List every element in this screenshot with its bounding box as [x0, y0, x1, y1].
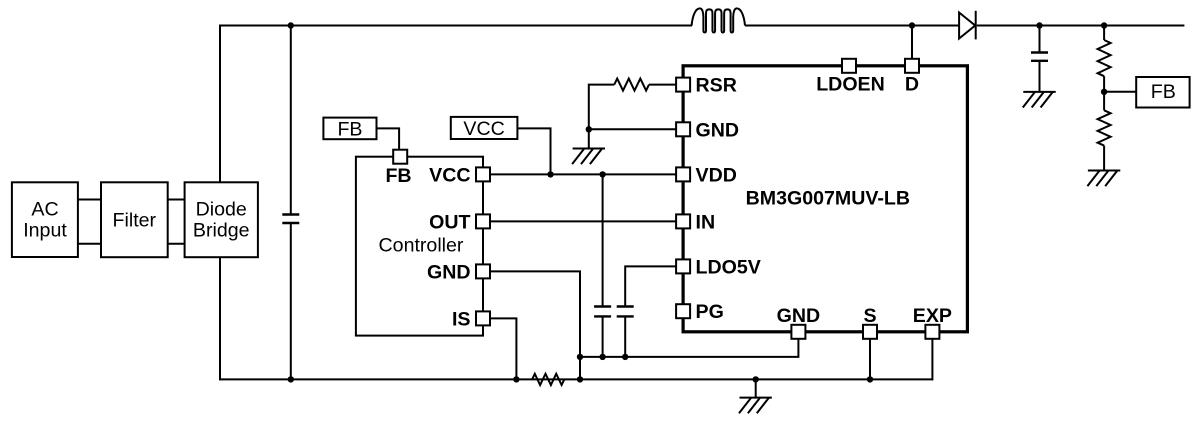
net label box FB (controller) — [323, 118, 376, 141]
label: BM3G007MUV-LB — [746, 187, 910, 209]
svg-text:Filter: Filter — [113, 210, 157, 232]
pin label PG — [696, 301, 724, 323]
pin label VCC — [429, 164, 470, 186]
ground G1 — [572, 149, 605, 165]
wire: R3 top lead — [1103, 26, 1105, 41]
box: Filter — [101, 182, 168, 257]
pin label RSR — [696, 75, 737, 97]
wire: C2 top lead — [602, 174, 604, 306]
junction: D at top rail — [909, 22, 915, 28]
capacitor C1 — [282, 215, 299, 224]
svg-text:EXP: EXP — [913, 305, 952, 327]
svg-text:GND: GND — [696, 119, 740, 141]
wire: inner ground line — [580, 332, 798, 357]
svg-text:Bridge: Bridge — [193, 219, 250, 241]
svg-text:Diode: Diode — [196, 199, 247, 221]
pin: controller OUT — [476, 214, 490, 228]
svg-text:S: S — [863, 305, 876, 327]
svg-text:LDO5V: LDO5V — [696, 256, 761, 278]
capacitor C2 — [594, 307, 611, 317]
resistor R2 (current sense) — [532, 374, 564, 385]
box: Diode Bridge — [185, 182, 258, 257]
wire: C3 bottom lead — [624, 316, 626, 357]
capacitor C3 — [617, 307, 634, 317]
svg-text:BM3G007MUV-LB: BM3G007MUV-LB — [746, 187, 910, 209]
wire: stub to ground G2 — [755, 379, 757, 397]
junction: C3 at ground line — [622, 354, 628, 360]
pin: U2 GND (bottom) — [791, 325, 805, 339]
wire: top rail right segment — [977, 25, 1185, 27]
svg-text:VDD: VDD — [696, 164, 737, 186]
resistor R1 (RSR) — [614, 79, 649, 91]
wire: bottom rail — [219, 378, 932, 380]
wire: R1 to GND pin corner — [589, 85, 615, 130]
pin label VDD — [696, 164, 737, 186]
diode D1 — [959, 11, 976, 40]
wire: R4 to ground — [1103, 146, 1105, 171]
junction: VCC label tap — [547, 171, 553, 177]
pin: U2 D — [905, 59, 919, 73]
svg-text:PG: PG — [696, 301, 724, 323]
junction: FB divider node — [1101, 89, 1107, 95]
ground G2 — [739, 398, 772, 414]
wire AC Input to Filter (upper) — [78, 199, 101, 201]
controller U1 box — [356, 157, 483, 336]
pin: U2 LDOEN — [842, 59, 856, 73]
box: AC Input — [12, 182, 78, 257]
ground G4 — [1087, 171, 1120, 187]
wire: VCC pin to VDD pin — [483, 173, 683, 175]
wire: RSR pin lead — [649, 84, 683, 86]
pin: U2 LDO5V — [676, 259, 690, 273]
junction: C1 at top rail — [288, 22, 294, 28]
svg-text:LDOEN: LDOEN — [816, 73, 885, 95]
pin: controller IS — [476, 311, 490, 325]
wire Filter to Diode Bridge (lower) — [168, 243, 185, 245]
pin label LDOEN — [816, 73, 885, 95]
wire: R3 to node FB — [1103, 76, 1105, 110]
wire: C1 top lead — [290, 26, 292, 215]
wire: C4 to ground — [1039, 61, 1041, 92]
pin: controller GND — [476, 264, 490, 278]
svg-text:Input: Input — [23, 219, 67, 241]
junction: bottom rail at R2 — [577, 376, 583, 382]
svg-text:RSR: RSR — [696, 75, 737, 97]
net label box FB (output) — [1136, 77, 1189, 108]
wire: S pin to bottom rail — [869, 332, 871, 380]
wire: D pin to top rail — [911, 26, 913, 66]
wire AC Input to Filter (lower) — [78, 243, 101, 245]
pin: U2 GND (left) — [676, 122, 690, 136]
wire: VCC label to VCC net — [517, 128, 550, 174]
junction: ground line left — [577, 354, 583, 360]
svg-text:OUT: OUT — [429, 211, 470, 233]
svg-text:GND: GND — [777, 305, 821, 327]
pin: controller FB — [393, 150, 407, 164]
junction: C2 tap on VCC net — [599, 171, 605, 177]
wire: to GND pin — [589, 128, 683, 130]
pin: U2 IN — [676, 214, 690, 228]
junction: divider at top rail — [1101, 22, 1107, 28]
wire: LDO5V to C3 — [625, 266, 683, 306]
svg-text:VCC: VCC — [429, 164, 470, 186]
pin: controller VCC — [476, 167, 490, 181]
ground G3 — [1023, 92, 1056, 108]
pin label D — [905, 73, 919, 95]
wire: C4 top lead — [1039, 26, 1041, 53]
wire: IS pin to bottom rail — [483, 318, 516, 379]
wire: EXP pin to bottom rail — [931, 332, 933, 381]
wire: Diode Bridge bottom to bottom rail — [219, 257, 221, 380]
svg-text:FB: FB — [1151, 81, 1176, 103]
wire: top rail left segment — [219, 25, 692, 27]
pin label FB — [385, 165, 411, 187]
svg-text:IS: IS — [452, 308, 471, 330]
wire: OUT pin to IN pin — [483, 220, 683, 222]
svg-text:GND: GND — [427, 261, 471, 283]
pin: U2 RSR — [676, 78, 690, 92]
wire Filter to Diode Bridge (upper) — [168, 199, 185, 201]
pin label LDO5V — [696, 256, 761, 278]
svg-text:FB: FB — [385, 165, 411, 187]
junction: G2 at bottom rail — [753, 376, 759, 382]
junction: C2 at ground line — [599, 354, 605, 360]
svg-text:Controller: Controller — [379, 235, 464, 257]
junction: S at bottom rail — [867, 376, 873, 382]
resistor R3 — [1098, 40, 1111, 76]
pin label S — [863, 305, 876, 327]
pin label IN — [696, 211, 716, 233]
svg-text:D: D — [905, 73, 919, 95]
pin label EXP — [913, 305, 952, 327]
wire: Diode Bridge top to top rail — [219, 25, 221, 183]
pin: U2 S — [863, 325, 877, 339]
svg-text:IN: IN — [696, 211, 716, 233]
net label box VCC — [451, 117, 518, 140]
capacitor C4 — [1031, 53, 1048, 61]
pin: U2 EXP — [925, 325, 939, 339]
pin label OUT — [429, 211, 470, 233]
IC U2 BM3G007MUV-LB box — [683, 66, 967, 332]
junction: RSR ground node — [586, 126, 592, 132]
svg-text:VCC: VCC — [463, 118, 504, 140]
wire: node to FB label box — [1104, 91, 1136, 93]
pin: U2 VDD — [676, 167, 690, 181]
inductor L1 — [692, 8, 745, 32]
pin label GND (bottom) — [777, 305, 821, 327]
junction: C1 at bottom rail — [288, 376, 294, 382]
pin label GND — [427, 261, 471, 283]
wire: C2 bottom lead — [602, 316, 604, 357]
pin label IS — [452, 308, 471, 330]
junction: IS at bottom rail — [513, 376, 519, 382]
label: Controller — [379, 235, 464, 257]
pin: U2 PG — [676, 304, 690, 318]
pin label GND — [696, 119, 740, 141]
wire: FB label to FB pin — [377, 128, 400, 150]
svg-text:FB: FB — [337, 118, 362, 140]
wire: C1 bottom lead — [290, 223, 292, 379]
wire: top rail mid segment — [745, 25, 959, 27]
junction: C4 at top rail — [1036, 22, 1042, 28]
wire: controller GND to ground line — [483, 271, 580, 357]
wire: ground line down to bottom rail — [579, 357, 581, 380]
svg-text:AC: AC — [31, 199, 58, 221]
wire: stub to ground G1 — [588, 129, 590, 148]
resistor R4 — [1098, 110, 1111, 145]
